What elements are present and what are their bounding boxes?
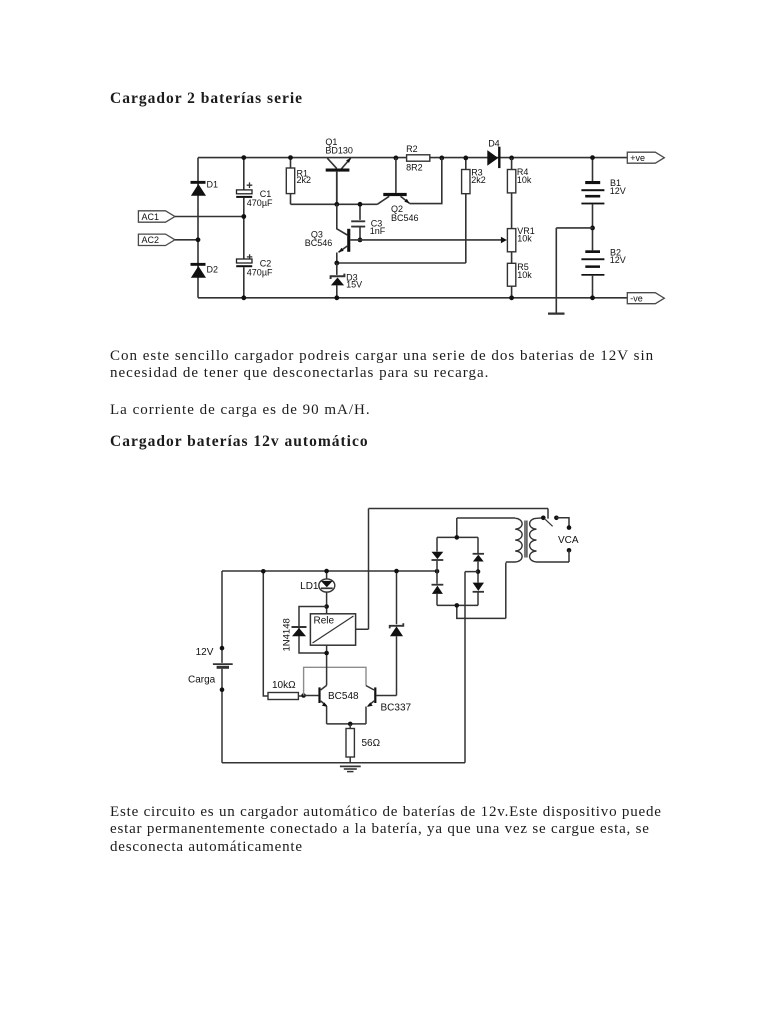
connector AC2	[138, 234, 175, 245]
node dot D4 right	[509, 156, 514, 161]
svg-text:LD1: LD1	[300, 581, 319, 592]
svg-text:BD130: BD130	[325, 146, 353, 156]
wire top rail	[198, 157, 627, 159]
node dot Q1 base	[334, 202, 339, 207]
node dot emitter join	[348, 722, 353, 727]
node dot B2 bottom	[590, 295, 595, 300]
bridge top	[437, 518, 515, 537]
node dot R1 top	[288, 155, 293, 160]
node dot Q3 emitter	[334, 261, 339, 266]
node dot LED top	[324, 569, 329, 574]
svg-text:10k: 10k	[517, 270, 532, 280]
svg-text:12V: 12V	[196, 647, 214, 658]
zener diode	[390, 623, 404, 636]
node dot C1 top	[241, 155, 246, 160]
svg-text:D2: D2	[207, 264, 219, 274]
svg-text:-ve: -ve	[630, 293, 643, 303]
node dot rail-bridge	[435, 569, 440, 574]
node dot R2 right	[439, 156, 444, 161]
svg-text:BC546: BC546	[305, 238, 333, 248]
wire relay bottom	[326, 645, 328, 685]
wire Q3 base to VR1 wiper	[350, 239, 501, 241]
wire left rail	[197, 158, 199, 298]
svg-text:+ve: +ve	[630, 153, 645, 163]
diode D1	[191, 180, 219, 196]
resistor 10k	[268, 680, 304, 699]
svg-text:470µF: 470µF	[247, 268, 273, 278]
LED LD1	[300, 571, 335, 614]
wire AC2 to rail	[175, 239, 198, 241]
connector AC1	[138, 211, 175, 222]
node dot 10k branch top	[261, 569, 266, 574]
battery B2	[581, 247, 625, 297]
paragraph 1	[110, 348, 666, 383]
wire Q3 emitter to R3 bottom	[337, 262, 466, 264]
svg-text:1nF: 1nF	[370, 226, 386, 236]
wire base node	[291, 196, 390, 204]
node dot C3 top	[358, 202, 363, 207]
wire bridge out	[465, 572, 478, 763]
node dot bridge bottom	[455, 603, 460, 608]
svg-text:10k: 10k	[517, 175, 532, 185]
node dot D3 bottom	[334, 295, 339, 300]
wire bottom rail	[222, 762, 465, 764]
svg-text:10kΩ: 10kΩ	[272, 680, 296, 691]
transistor Q1	[325, 137, 353, 205]
transistor BC337	[366, 686, 412, 724]
battery 12V Carga	[188, 646, 233, 692]
zener D3	[331, 263, 363, 298]
connector +ve	[627, 152, 664, 163]
svg-text:2k2: 2k2	[297, 175, 312, 185]
wire Q2 emitter to rail	[410, 158, 442, 204]
bridge bottom	[437, 563, 506, 619]
node dot AC1-C1C2	[241, 214, 246, 219]
node dot B1 top	[590, 155, 595, 160]
svg-text:D1: D1	[207, 180, 219, 190]
svg-text:1N4148: 1N4148	[282, 618, 293, 651]
svg-text:470µF: 470µF	[247, 198, 273, 208]
wire left branch	[221, 571, 223, 763]
paragraph 2	[110, 402, 685, 419]
resistor R5	[507, 252, 532, 298]
resistor 56R	[346, 724, 381, 763]
svg-text:12V: 12V	[610, 186, 626, 196]
capacitor C3	[351, 204, 386, 240]
svg-text:VCA: VCA	[558, 535, 579, 546]
svg-text:8R2: 8R2	[406, 162, 423, 172]
node dot BC548 base	[301, 693, 306, 698]
svg-text:12V: 12V	[610, 255, 626, 265]
connector -ve	[627, 293, 664, 304]
svg-text:2k2: 2k2	[471, 175, 486, 185]
svg-text:Rele: Rele	[314, 616, 335, 627]
zener branch wire	[396, 571, 398, 696]
node dot R2 left	[394, 156, 399, 161]
resistor R4	[507, 158, 532, 229]
bridge left branch	[432, 537, 444, 605]
wire emitters join	[327, 723, 366, 725]
svg-text:15V: 15V	[346, 280, 362, 290]
ground	[340, 766, 361, 771]
transistor Q2	[383, 158, 418, 223]
transistor Q3	[305, 204, 351, 263]
node dot C3 bottom	[358, 238, 363, 243]
resistor R1	[286, 158, 311, 205]
node dot AC2-rail	[196, 237, 201, 242]
transformer primary	[506, 518, 522, 562]
node dot battery mid	[590, 226, 595, 231]
svg-text:56Ω: 56Ω	[362, 738, 381, 749]
resistor R3	[462, 158, 486, 263]
svg-text:AC2: AC2	[142, 235, 160, 245]
node dot C2 bottom	[241, 295, 246, 300]
transistor BC548	[304, 685, 359, 724]
svg-text:BC337: BC337	[381, 702, 412, 713]
svg-text:Carga: Carga	[188, 675, 216, 686]
svg-text:10k: 10k	[517, 234, 532, 244]
potentiometer VR1	[501, 226, 535, 252]
paragraph 3	[110, 804, 685, 856]
wire AC1 to node	[175, 216, 244, 218]
heading: Cargador 2 baterías serie	[110, 90, 303, 108]
diode D2	[191, 263, 219, 278]
ground	[548, 313, 565, 315]
svg-text:BC548: BC548	[328, 691, 359, 702]
wire top feed	[369, 509, 549, 519]
relay box Rele	[310, 614, 355, 645]
battery B1	[581, 158, 625, 251]
node dot R5 bottom	[509, 295, 514, 300]
svg-text:R2: R2	[406, 144, 418, 154]
node dot zener top	[394, 569, 399, 574]
node dot R3 top	[463, 156, 468, 161]
wire 10k branch	[263, 571, 268, 696]
wire bottom rail	[198, 297, 627, 299]
capacitor C1	[236, 182, 273, 208]
wire top rail	[222, 570, 437, 572]
wire feedback loop	[304, 667, 366, 695]
capacitor C2	[236, 254, 273, 277]
bridge right branch	[473, 537, 484, 605]
svg-text:AC1: AC1	[142, 212, 160, 222]
transformer core	[525, 521, 527, 558]
node dot bridge top	[455, 535, 460, 540]
wire diode loop	[299, 607, 327, 654]
resistor R2	[406, 144, 430, 172]
diode D4	[487, 138, 500, 168]
wire battery mid tap	[556, 228, 592, 314]
transformer secondary	[530, 518, 569, 562]
wire relay right pin	[356, 509, 369, 630]
svg-text:D4: D4	[488, 138, 500, 148]
heading: Cargador baterías 12v automático	[110, 433, 369, 451]
node dot relay top	[324, 604, 329, 609]
wire capacitor branch	[243, 158, 245, 298]
svg-text:BC546: BC546	[391, 213, 419, 223]
node dot relay bottom	[324, 651, 329, 656]
node dot bridge right mid	[476, 569, 481, 574]
diode 1N4148	[282, 618, 307, 651]
switch VCA	[541, 516, 579, 563]
